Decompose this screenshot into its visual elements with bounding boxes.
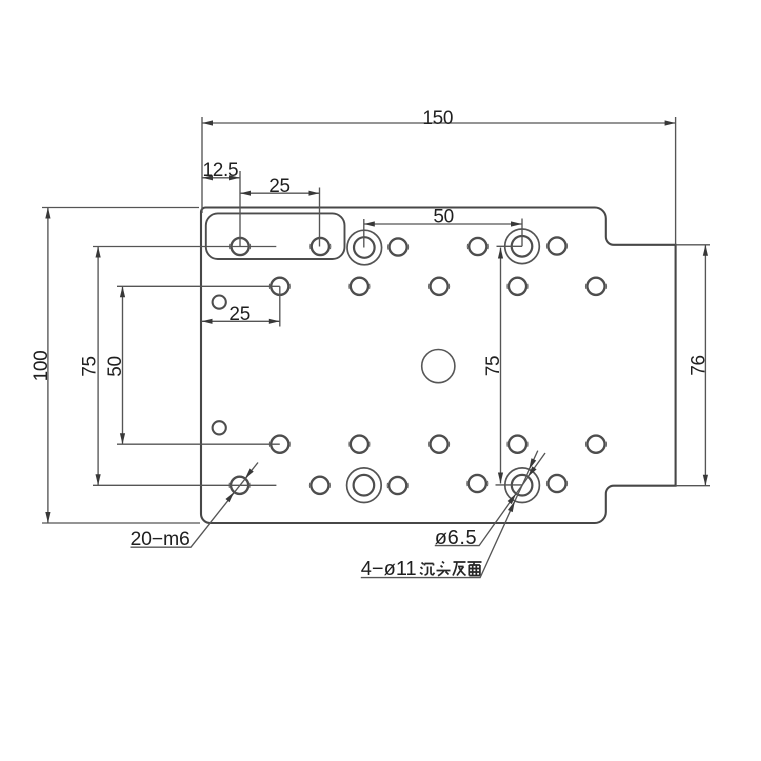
hanzi mian	[468, 562, 482, 576]
dimension 25 top	[240, 171, 320, 247]
M6 tapped hole 18 (row 5)	[387, 477, 408, 494]
svg-text:76: 76	[688, 355, 709, 376]
svg-text:150: 150	[422, 108, 453, 129]
dimension 100 left	[42, 208, 200, 524]
M6 tapped hole 1 (row 1)	[230, 238, 251, 255]
CJK text (drawn as strokes): 沉头反面	[420, 562, 482, 576]
dimension 75 middle	[496, 246, 523, 485]
svg-text:25: 25	[229, 304, 250, 325]
M6 tapped hole 11 (row 4)	[269, 436, 290, 453]
M6 tapped hole 16 (row 5)	[229, 477, 250, 494]
hanzi tou	[437, 562, 451, 576]
M6 tapped hole 20 (row 5)	[546, 475, 567, 492]
M6 tapped hole 13 (row 4)	[429, 436, 450, 453]
M6 tapped hole 15 (row 4)	[585, 436, 606, 453]
thin extension of step edges for 76 dim	[676, 245, 710, 486]
svg-text:50: 50	[105, 356, 126, 377]
svg-text:100: 100	[31, 351, 52, 382]
svg-text:ø6.5: ø6.5	[435, 527, 477, 549]
svg-text:75: 75	[483, 356, 504, 377]
label o6.5 with leader	[435, 453, 545, 546]
svg-text:4−ø11: 4−ø11	[361, 558, 417, 580]
dowel pin hole upper	[213, 296, 226, 309]
M6 tapped hole 8 (row 2)	[429, 278, 450, 295]
hanzi chen	[420, 563, 435, 576]
M6 tapped hole 4 (row 1)	[467, 238, 488, 255]
M6 tapped hole 14 (row 4)	[507, 436, 528, 453]
svg-text:20−m6: 20−m6	[131, 528, 190, 550]
plate outline	[201, 207, 676, 523]
dimension 25 middle	[202, 286, 280, 326]
countersunk hole o11/o6.5 C	[347, 468, 382, 503]
svg-text:12.5: 12.5	[203, 160, 239, 181]
M6 tapped hole 2 (row 1)	[310, 238, 331, 255]
countersunk hole o11/o6.5 D	[505, 468, 540, 503]
M6 tapped hole 9 (row 2)	[507, 278, 528, 295]
M6 tapped hole 19 (row 5)	[467, 475, 488, 492]
svg-text:50: 50	[433, 207, 454, 228]
M6 tapped hole 17 (row 5)	[309, 477, 330, 494]
dimension 76 right	[704, 245, 706, 486]
M6 tapped hole 7 (row 2)	[349, 278, 370, 295]
M6 tapped hole 12 (row 4)	[349, 436, 370, 453]
svg-text:25: 25	[269, 176, 290, 197]
hanzi fan	[453, 562, 466, 576]
center bore circle	[422, 350, 455, 383]
dimension 12.5	[202, 177, 240, 179]
slot (rounded rectangle pocket)	[206, 213, 345, 259]
label 4-o11 (countersunk back side) with leader	[361, 451, 538, 578]
dimension 150	[202, 117, 676, 245]
svg-text:75: 75	[80, 356, 101, 377]
dowel pin hole lower	[213, 421, 226, 434]
label 20-m6 with leader	[131, 463, 259, 548]
dimension 50 left	[117, 286, 280, 444]
countersunk hole o11/o6.5 B	[505, 229, 540, 264]
dimension 75 left	[93, 247, 276, 486]
dimension 50 top	[364, 219, 522, 248]
M6 tapped hole 3 (row 1)	[388, 238, 409, 255]
M6 tapped hole 5 (row 1)	[546, 237, 567, 254]
M6 tapped hole 6 (row 2)	[269, 278, 290, 295]
countersunk hole o11/o6.5 A	[347, 230, 382, 265]
M6 tapped hole 10 (row 2)	[585, 278, 606, 295]
